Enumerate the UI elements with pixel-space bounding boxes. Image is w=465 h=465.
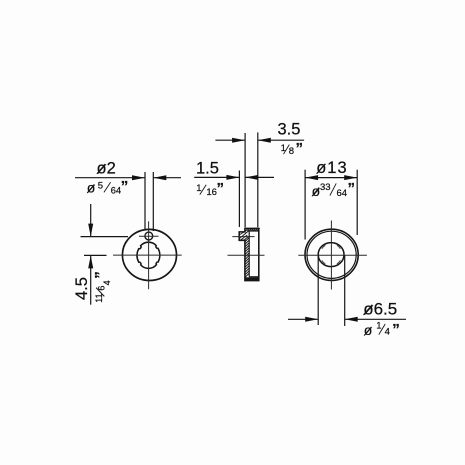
right view notch marks <box>322 245 341 264</box>
label D2 inches 5/64 <box>87 178 129 197</box>
right view hole <box>318 243 344 267</box>
side view small hole centerline <box>232 236 254 238</box>
svg-text:5: 5 <box>98 180 103 191</box>
svg-text:4.5: 4.5 <box>73 277 91 300</box>
side view hatching top flange <box>245 228 259 231</box>
side view inner cavity lines <box>249 231 259 277</box>
label D2 <box>97 159 116 177</box>
svg-text:”: ” <box>296 140 304 157</box>
side view extension lines <box>239 132 257 227</box>
label 4.5 (rotated) <box>73 277 91 300</box>
svg-text:”: ” <box>121 178 129 195</box>
side view hatching web <box>245 238 249 278</box>
svg-text:4: 4 <box>385 327 390 338</box>
dimension D13 line <box>305 175 357 180</box>
left view horizontal centerline <box>113 254 182 256</box>
svg-text:1.5: 1.5 <box>196 159 219 177</box>
svg-text:1: 1 <box>196 183 201 194</box>
side view ear hatching <box>240 231 249 241</box>
diameter symbol slashes <box>87 164 372 336</box>
side view hatching bottom flange <box>245 277 258 280</box>
right view rim circle <box>307 231 356 278</box>
left view small hole <box>145 232 153 240</box>
dimension 1.5 <box>194 175 274 180</box>
dimension line D2 extension lines <box>145 172 153 231</box>
left view outer circle <box>122 229 176 280</box>
dimension line D2 <box>75 175 181 180</box>
svg-text:4: 4 <box>102 280 112 285</box>
svg-text:33: 33 <box>320 182 331 193</box>
svg-text:64: 64 <box>337 188 348 199</box>
dimension D6.5 line <box>288 317 406 322</box>
dimension D13 extension lines <box>305 170 357 240</box>
svg-text:8: 8 <box>289 146 294 157</box>
left view vertical centerline <box>148 221 150 289</box>
svg-text:ø2: ø2 <box>97 159 116 177</box>
left view cam hole with notches <box>137 242 160 268</box>
label 4.5 inches 11/64 (rotated) <box>92 271 112 303</box>
right view horizontal centerline <box>298 254 367 256</box>
dimension 4.5 extension lines <box>81 237 129 256</box>
label D13 inches 33/64 <box>312 180 355 199</box>
svg-text:”: ” <box>92 271 109 279</box>
svg-text:”: ” <box>348 180 356 197</box>
svg-text:3.5: 3.5 <box>278 121 301 139</box>
dimension 4.5 arrows <box>88 204 93 305</box>
small hole horizontal centerline <box>139 235 159 237</box>
dimension 3.5 <box>215 138 304 143</box>
label 1.5 <box>196 159 219 177</box>
label D6.5 <box>363 299 397 318</box>
svg-text:64: 64 <box>111 186 122 197</box>
svg-text:16: 16 <box>206 187 217 198</box>
label D13 <box>316 159 347 177</box>
svg-text:”: ” <box>392 321 400 338</box>
svg-text:1: 1 <box>376 321 381 332</box>
right view outer circle <box>305 229 358 280</box>
right view vertical centerline <box>330 221 332 290</box>
side view part outline <box>239 228 259 280</box>
label 3.5 <box>278 121 301 139</box>
label 1.5 inches 1/16 <box>196 180 224 198</box>
side view horizontal centerline <box>228 254 265 256</box>
dimension D6.5 extension lines <box>318 256 345 327</box>
label D6.5 inches 1/4 <box>364 321 400 339</box>
svg-text:”: ” <box>217 180 225 197</box>
label 3.5 inches 1/8 <box>281 140 303 157</box>
